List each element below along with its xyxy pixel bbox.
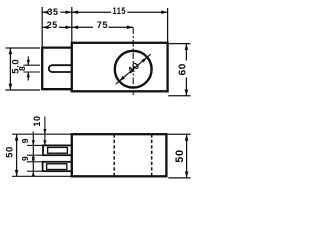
dimension 50 right extension lines [166, 133, 190, 135]
svg-text:9: 9 [20, 138, 30, 143]
dimension 5.0 line [9, 48, 11, 90]
svg-text:115: 115 [113, 6, 127, 16]
svg-text:75: 75 [97, 20, 108, 30]
extension line head right [167, 8, 169, 43]
lower prong slot opening [47, 164, 67, 170]
body bottom edge extension left [12, 175, 72, 177]
dimension 115 line [72, 11, 168, 13]
dimension 75 line [72, 26, 133, 28]
slot in shank [49, 65, 72, 72]
svg-text:35: 35 [47, 7, 58, 17]
dimension 50 left line [16, 134, 18, 176]
svg-text:50: 50 [174, 149, 186, 162]
dimension 60 line [185, 44, 187, 61]
dimension 8 arrows [27, 57, 29, 66]
dimension 9 line [32, 132, 34, 177]
front view body rectangle [72, 134, 167, 176]
svg-text:10: 10 [32, 115, 42, 126]
hole circle [115, 51, 152, 88]
top view shank rectangle [42, 48, 72, 90]
hidden line hole right [151, 134, 153, 176]
extension line junction [71, 7, 73, 42]
svg-text:8: 8 [17, 66, 27, 71]
body top edge extension left [12, 133, 72, 135]
dimension 50 right line [186, 134, 188, 178]
dimension 10 line [44, 117, 46, 146]
extension lines 5.0 dim [6, 47, 41, 49]
dimension 9 extension lines [27, 145, 43, 171]
lower prong [43, 162, 72, 171]
dimension 35 line [42, 11, 72, 13]
svg-text:9: 9 [20, 156, 30, 161]
dimension 25 line [42, 26, 72, 28]
svg-text:50: 50 [5, 146, 16, 158]
upper prong slot opening [48, 147, 68, 153]
svg-text:25: 25 [47, 20, 58, 30]
dimension 8 extension lines [24, 64, 41, 66]
hole diameter line [116, 54, 151, 84]
extension lines 60 dim [168, 43, 191, 45]
extension line shank left [41, 7, 43, 47]
svg-text:60: 60 [177, 63, 188, 75]
top view head rectangle [72, 43, 168, 92]
hidden line hole left [113, 134, 115, 176]
hole vertical centerline [132, 28, 134, 96]
upper prong [43, 145, 72, 155]
